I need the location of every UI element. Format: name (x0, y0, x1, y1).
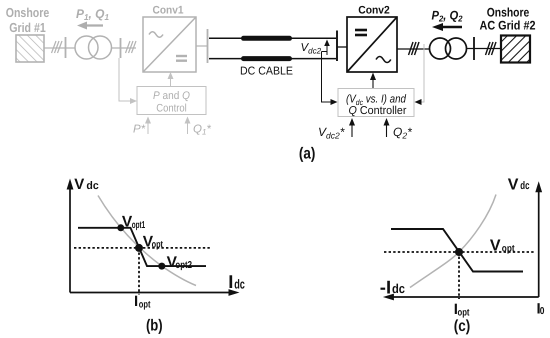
graph b dot Vopt2 (158, 263, 165, 270)
DC cable top thick segment (244, 36, 290, 41)
Vdc2 measurement arrow (322, 43, 328, 55)
svg-text:dc: dc (392, 281, 405, 296)
graph b X axis (70, 292, 232, 294)
transformer T2 (430, 38, 467, 59)
DC cable top conductor (209, 37, 336, 39)
label P and Q Control (153, 90, 190, 115)
label: Onshore Grid #1 (6, 5, 50, 35)
converter Conv1 box (143, 17, 196, 72)
Conv2 AC sine symbol (376, 57, 391, 63)
wire grid1 to marker (44, 47, 56, 49)
svg-text:Onshore: Onshore (487, 6, 530, 20)
Conv2 DC symbol (355, 30, 367, 35)
arrow Q1* into control box (187, 122, 189, 134)
three-phase marker 3 (409, 42, 420, 55)
svg-text:dc: dc (234, 277, 245, 292)
AC grid #2 box (hatched) (501, 36, 530, 63)
controller box Conv2 (338, 89, 414, 117)
graph b dotted horizontal Vopt (74, 247, 211, 249)
svg-text:Onshore: Onshore (6, 5, 50, 20)
graph c X axis (390, 296, 539, 298)
graph c dotted horizontal Vopt (384, 251, 536, 253)
svg-text:opt: opt (458, 307, 471, 318)
DC cable bottom thick segment (244, 56, 290, 61)
svg-text:Conv2: Conv2 (358, 5, 390, 17)
arrow Q2* into controller (386, 124, 388, 137)
arrow control box to Conv1 (170, 76, 172, 87)
arrow Vdc2* into controller (351, 124, 353, 137)
bus bar B3 (473, 37, 475, 60)
svg-text:(b): (b) (146, 318, 163, 335)
svg-text:opt: opt (502, 243, 515, 254)
Conv1 DC symbol (176, 56, 187, 61)
arrow P* into control box (147, 122, 149, 134)
svg-text:P and Q: P and Q (153, 90, 190, 102)
control box Conv1 (137, 87, 206, 115)
graph b dot Vopt1 (117, 224, 124, 231)
svg-text:P2, Q2: P2, Q2 (432, 9, 463, 24)
graph c dot Vopt (455, 248, 463, 256)
DC bus bar left (207, 29, 209, 63)
svg-text:AC Grid #2: AC Grid #2 (480, 19, 536, 33)
arrow controller to Conv2 (372, 77, 374, 88)
graph c dotted vertical Iopt (458, 252, 460, 299)
graph b Y axis (69, 186, 71, 293)
three-phase marker 2 (126, 41, 137, 53)
graph b dot Vopt (135, 244, 143, 252)
svg-text:opt: opt (152, 240, 164, 251)
svg-text:dc: dc (520, 180, 529, 192)
power flow arrow P1Q1 (77, 22, 103, 30)
feedback wire Vdc2 to controller (322, 52, 332, 103)
svg-text:0: 0 (540, 306, 545, 317)
power flow arrow P2Q2 (432, 23, 462, 31)
graph b dotted vertical Iopt (138, 248, 140, 295)
svg-text:Control: Control (156, 103, 187, 115)
Conv1 AC sine symbol (149, 32, 163, 38)
svg-text:V: V (490, 238, 501, 255)
AC grid #1 box (hatched) (16, 35, 44, 62)
graph c gray curve (410, 195, 496, 288)
wire Conv1 to DC bus (196, 45, 208, 47)
svg-text:DC CABLE: DC CABLE (240, 66, 293, 78)
svg-text:(a): (a) (299, 145, 316, 162)
graph b gray curve (98, 196, 196, 286)
svg-text:P1, Q1: P1, Q1 (76, 7, 109, 22)
graph c Y axis (538, 189, 540, 298)
three-phase marker 1 (52, 41, 63, 53)
svg-text:-I: -I (380, 277, 391, 298)
svg-text:(c): (c) (454, 318, 471, 335)
DC cable bottom conductor (209, 58, 336, 60)
svg-text:opt1: opt1 (132, 220, 146, 231)
three-phase marker 4 (486, 42, 497, 55)
transformer T1 (75, 36, 112, 59)
svg-text:Q Controller: Q Controller (349, 105, 407, 117)
Q feedback tap to controller (420, 44, 425, 102)
label Onshore AC Grid #2 (480, 6, 536, 33)
label (Vdc vs I) and Q Controller (346, 94, 407, 118)
svg-text:I: I (134, 293, 138, 310)
DC bus bar right (336, 31, 338, 62)
converter Conv2 box (347, 17, 397, 72)
svg-text:opt: opt (139, 300, 151, 311)
svg-text:V: V (74, 176, 84, 193)
wire T1 to bus B2 (112, 47, 137, 49)
svg-text:P*: P* (133, 124, 146, 136)
wire B1 to transformer T1 (56, 47, 75, 49)
svg-text:Conv1: Conv1 (153, 5, 184, 17)
graph b droop line (78, 228, 206, 266)
wire Conv2 to AC marker (397, 48, 430, 50)
svg-text:opt2: opt2 (175, 260, 192, 271)
svg-text:I: I (228, 271, 233, 292)
wire T2 to bus B3 (467, 48, 502, 50)
bus bar B1 (65, 37, 67, 58)
svg-text:V: V (508, 177, 519, 194)
bus bar B2 (120, 38, 122, 58)
svg-text:Grid #1: Grid #1 (9, 20, 46, 35)
feedback tap from bus B2 to control box (119, 58, 132, 101)
svg-text:dc: dc (86, 180, 98, 192)
graph c droop line (391, 229, 523, 272)
wire DC bus to Conv2 (337, 46, 347, 48)
